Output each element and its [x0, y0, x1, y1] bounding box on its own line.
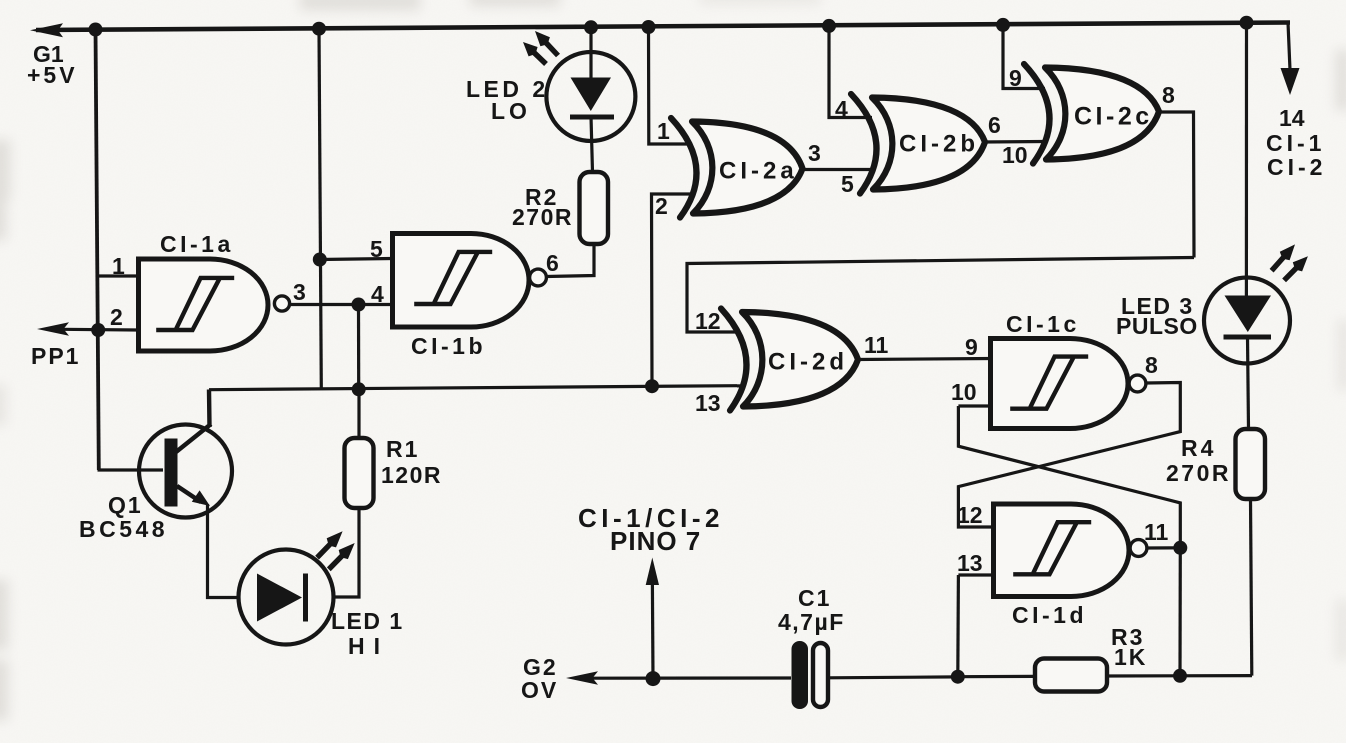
schmitt symbol CI-1d [1013, 522, 1091, 574]
wire pin10 CI-1c [958, 404, 992, 407]
led LED3 cathode bar [1224, 335, 1272, 340]
junction dot out3/down-branch [352, 298, 366, 312]
xor-gate CI-2a input arc [671, 118, 696, 218]
wire R1 to top node [357, 389, 360, 438]
svg-text:CI-1d: CI-1d [1012, 602, 1087, 628]
svg-text:10: 10 [1002, 142, 1028, 168]
svg-text:5: 5 [841, 171, 854, 197]
wire R4 to bottom corner [1251, 499, 1252, 676]
svg-text:2: 2 [110, 304, 123, 330]
wire PINO7 riser [651, 585, 655, 679]
svg-text:10: 10 [951, 379, 977, 405]
svg-text:OV: OV [521, 677, 558, 703]
wire CI-1a pin1 [97, 274, 138, 277]
svg-text:6: 6 [988, 112, 1001, 138]
wire branch down from out3 node [357, 305, 360, 390]
svg-text:9: 9 [1009, 65, 1022, 91]
xor-gate CI-2c body [1045, 68, 1159, 160]
nand-gate CI-1a body [139, 259, 269, 351]
schmitt symbol CI-1a [156, 278, 234, 330]
svg-text:LO: LO [491, 98, 531, 124]
wire riser to CI-2a pin2 [652, 194, 693, 386]
junction dot rail/probe vertical [89, 23, 103, 37]
arrow PINO7 (up) [646, 558, 659, 586]
svg-text:11: 11 [864, 332, 889, 358]
wire bottom net C1 to pin13 node [828, 675, 958, 679]
junction dot CI-2a pin2 riser [645, 379, 659, 393]
svg-text:CI-1c: CI-1c [1006, 311, 1080, 337]
svg-text:C1: C1 [798, 585, 831, 611]
svg-text:8: 8 [1162, 82, 1175, 108]
wire emitter down to LED1 [208, 504, 241, 598]
wire node to R3 [958, 675, 1034, 678]
arrow PP1 (left) [37, 322, 69, 335]
svg-text:CI-2: CI-2 [1267, 154, 1326, 180]
wire Q1 emitter [177, 486, 201, 502]
wire Q1 collector [176, 390, 211, 453]
svg-text:CI-1a: CI-1a [160, 231, 234, 257]
arrow pin-14 feed (down) [1281, 68, 1300, 95]
junction dot rail/CI-2b pin4 [822, 19, 836, 33]
svg-text:PP1: PP1 [31, 343, 80, 369]
junction dot pin13 node [951, 670, 965, 684]
wire out6 to R2 [547, 243, 595, 277]
bubble CI-1c output [1129, 375, 1146, 392]
svg-text:13: 13 [695, 390, 721, 416]
svg-text:CI-2a: CI-2a [719, 158, 798, 185]
nand-gate CI-1b body [393, 234, 530, 328]
svg-text:PINO 7: PINO 7 [610, 526, 701, 556]
junction dot PINO7 riser [646, 671, 661, 686]
led LED1 circle [239, 550, 334, 645]
wire R3 to out11 node [1106, 674, 1252, 678]
wire rail to LED2 [589, 27, 592, 78]
wire pin13 CI-1d [958, 573, 995, 576]
svg-text:12: 12 [957, 502, 983, 528]
wire out6 CI-2b to pin10 CI-2c [983, 140, 1046, 144]
junction dot R1 tap [352, 382, 366, 396]
transistor Q1 base bar [165, 439, 178, 507]
junction dot R3/out11/R4 [1173, 669, 1187, 683]
wire probe vertical (rail to Q1 base) [96, 30, 99, 471]
svg-text:11: 11 [1144, 519, 1169, 545]
xor-gate CI-2c input arc [1024, 64, 1049, 164]
svg-text:R4: R4 [1181, 435, 1216, 461]
bubble CI-1b output [530, 269, 547, 286]
junction dot rail/LED3 [1240, 16, 1254, 30]
xor-gate CI-2d body [742, 312, 858, 407]
wire top +5V rail [36, 23, 1290, 31]
svg-text:12: 12 [695, 308, 721, 334]
svg-text:Q1: Q1 [108, 492, 143, 518]
svg-text:R1: R1 [386, 436, 419, 462]
wire PP1 to CI-1a pin2 [62, 328, 138, 332]
led LED2 cathode bar [570, 115, 614, 120]
svg-text:1K: 1K [1114, 644, 1147, 670]
svg-text:CI-2b: CI-2b [899, 131, 979, 158]
svg-text:+5V: +5V [27, 62, 78, 88]
xor-gate CI-2b input arc [851, 94, 876, 194]
svg-text:6: 6 [546, 250, 559, 276]
wire out11 to node [1147, 546, 1180, 549]
wire out3 CI-2a to pin5 CI-2b [802, 168, 875, 171]
arrow G2 (left) [566, 671, 598, 684]
resistor R2 [580, 172, 609, 244]
nand-gate CI-1d body [994, 504, 1130, 597]
bubble CI-1a output [274, 296, 289, 311]
light rays LED1 [315, 531, 342, 559]
nand-gate CI-1c body [991, 339, 1129, 429]
junction dot rail/LED2 [584, 20, 598, 34]
led LED2 triangle [571, 78, 612, 112]
arrow Q1 emitter head [192, 490, 210, 506]
svg-text:1: 1 [112, 253, 125, 279]
svg-text:120R: 120R [381, 462, 442, 488]
svg-text:4: 4 [371, 281, 384, 307]
svg-text:CI-1: CI-1 [1266, 130, 1325, 156]
wire Q1 base lead [98, 468, 164, 471]
transistor Q1 circle [139, 425, 232, 518]
junction dot pin5 tap [313, 253, 327, 267]
light rays LED3 [1270, 244, 1295, 272]
wire CI-2a pin1 from rail [649, 27, 693, 144]
wire feedback left [687, 258, 1194, 333]
svg-text:CI-2d: CI-2d [768, 349, 848, 376]
xor-gate CI-2a body [692, 122, 803, 214]
svg-text:CI-1b: CI-1b [411, 333, 486, 359]
led LED1 cathode bar [303, 574, 308, 622]
wire LED1 to R1 [334, 508, 360, 597]
svg-text:1: 1 [657, 118, 670, 144]
wire CI-1b pin5 vertical from rail [319, 29, 321, 389]
resistor R1 [345, 438, 374, 508]
svg-text:14: 14 [1279, 105, 1305, 131]
junction dot rail/CI-2a pin1 [642, 20, 656, 34]
wire LED2 to R2 [591, 117, 593, 173]
svg-text:3: 3 [293, 279, 306, 305]
xor-gate CI-2d input arc [721, 309, 746, 411]
svg-text:2: 2 [655, 193, 668, 219]
resistor R3 [1035, 659, 1107, 692]
junction dot out11 node [1173, 541, 1187, 555]
wire rail to LED3 [1245, 23, 1248, 296]
svg-text:BC548: BC548 [79, 516, 168, 542]
wire out11 CI-2d to pin9 CI-1c [856, 359, 992, 360]
svg-text:5: 5 [370, 236, 383, 262]
junction dot probe/pin2 [91, 323, 105, 337]
resistor R4 [1236, 429, 1266, 499]
junction dot rail/CI-2c pin9 [996, 18, 1010, 32]
svg-text:CI-2c: CI-2c [1074, 103, 1153, 131]
bubble CI-1d output [1130, 540, 1147, 557]
svg-text:270R: 270R [1166, 460, 1231, 486]
schmitt symbol CI-1c [1010, 357, 1088, 409]
capacitor C1 plate+ [792, 641, 809, 709]
led LED2 circle [546, 52, 635, 141]
light rays LED2 [523, 42, 548, 66]
schmitt symbol CI-1b [414, 252, 492, 304]
led LED3 circle [1204, 278, 1290, 364]
wire rail right drop to pin 14 [1288, 23, 1290, 71]
wire CI-2c pin9 from rail [1003, 25, 1045, 89]
wire LED3 to R4 [1248, 337, 1249, 429]
led LED3 triangle [1225, 296, 1272, 333]
wire cross-couple out8 to pin12 [958, 383, 1180, 528]
svg-text:4,7µF: 4,7µF [778, 609, 845, 635]
svg-text:9: 9 [965, 334, 978, 360]
svg-text:LED 1: LED 1 [331, 608, 404, 634]
wire cross-couple out11 to pin10 [958, 406, 1180, 548]
wire pin13 down to bottom net [956, 575, 960, 676]
svg-text:13: 13 [957, 550, 983, 576]
svg-text:3: 3 [808, 140, 821, 166]
capacitor C1 plate- [813, 643, 828, 707]
wire out8 feedback right+down [1156, 112, 1194, 258]
wire output3 to pin4 [288, 303, 392, 306]
svg-text:HI: HI [348, 633, 389, 659]
svg-text:4: 4 [835, 96, 848, 122]
svg-text:270R: 270R [512, 204, 573, 230]
wire bottom net G2 segment [591, 676, 791, 679]
svg-text:PULSO: PULSO [1116, 313, 1198, 339]
junction dot rail/CI-1b pin5 vertical [312, 22, 326, 36]
wire out11 node down [1178, 548, 1182, 676]
wire CI-2b pin4 from rail [829, 26, 872, 118]
arrow G1 supply (left) [30, 23, 63, 37]
wire pin5 horizontal [320, 259, 392, 260]
wire long collector net [209, 386, 737, 390]
wire CI-2d pin13 (end of long net) [737, 384, 744, 387]
led LED1 triangle [257, 574, 302, 622]
xor-gate CI-2b body [872, 98, 985, 190]
svg-text:8: 8 [1145, 352, 1158, 378]
